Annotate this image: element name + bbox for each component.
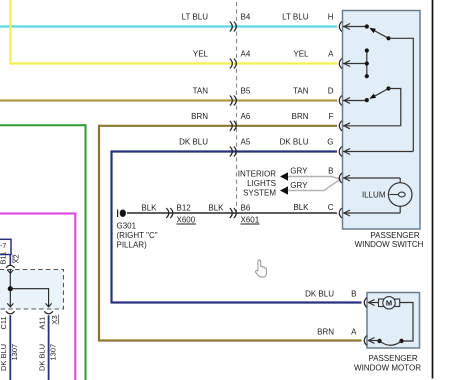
connector arc motor B — [364, 298, 367, 308]
svg-text:B4: B4 — [241, 13, 251, 22]
connector arc bottom 2 (X3) — [44, 311, 53, 314]
svg-text:A4: A4 — [241, 50, 251, 59]
splice node — [8, 286, 13, 291]
svg-text:B11: B11 — [0, 252, 8, 265]
svg-text:A11: A11 — [37, 317, 46, 330]
svg-text:LT BLU: LT BLU — [182, 13, 209, 22]
connector arc bottom 1 (X3) — [6, 311, 15, 314]
svg-text:TAN: TAN — [293, 87, 309, 96]
svg-text:1307: 1307 — [10, 344, 19, 361]
pin F arrow and internal wire — [343, 123, 401, 129]
svg-text:BLK: BLK — [208, 204, 224, 213]
wire BRN horizontal bottom (motor A) — [98, 339, 362, 341]
connector arc pin A — [339, 59, 342, 69]
svg-text:BLK: BLK — [293, 203, 309, 212]
wire MAGENTA horizontal (left) — [0, 213, 76, 215]
splice branch wire — [10, 289, 48, 307]
label INTERIOR LIGHTS SYSTEM — [238, 170, 277, 198]
pin A arrow and internal wire — [343, 61, 367, 67]
svg-text:BRN: BRN — [317, 328, 334, 337]
wire GRY upper (to interior lights) — [287, 177, 341, 180]
wire DK BLU bottom 2 — [48, 315, 50, 380]
pin G arrow and internal wire — [343, 149, 413, 155]
svg-text:WINDOW MOTOR: WINDOW MOTOR — [354, 364, 421, 373]
wire DK BLU horizontal (row G/A5) — [111, 150, 338, 152]
wire YEL vertical (top left) — [9, 0, 11, 65]
svg-text:D: D — [328, 87, 334, 96]
svg-text:TAN: TAN — [193, 87, 209, 96]
splice dashed box — [0, 270, 64, 310]
svg-text:X601: X601 — [241, 216, 260, 225]
wire GRN vertical (left) — [85, 124, 87, 380]
motor A arrow and wire — [368, 338, 380, 344]
wire GRY lower (to interior lights) — [287, 179, 341, 191]
svg-text:BRN: BRN — [191, 112, 208, 121]
wire TAN horizontal (row D/B5) — [0, 99, 337, 101]
connector arc motor A — [364, 336, 367, 346]
svg-text:DK BLU: DK BLU — [37, 344, 46, 371]
svg-text:A: A — [351, 328, 357, 337]
label X601 — [241, 216, 260, 225]
wire BLK horizontal (row C/B6) — [127, 212, 337, 214]
wire GRN horizontal (left) — [0, 124, 87, 126]
inline connector A4 — [230, 59, 237, 69]
svg-text:DK BLU: DK BLU — [305, 290, 334, 299]
switch A common bar — [365, 48, 369, 78]
svg-text:B: B — [351, 290, 356, 299]
lamp ILLUM — [388, 183, 412, 207]
pin D arrow and internal wire — [343, 98, 367, 104]
pin H arrow and internal wire — [343, 24, 367, 30]
svg-text:DK BLU: DK BLU — [179, 138, 208, 147]
label G301 (RIGHT "C" PILLAR) — [117, 222, 158, 250]
svg-text:LIGHTS: LIGHTS — [247, 179, 276, 188]
svg-text:B12: B12 — [177, 204, 192, 213]
connector arc pin D — [339, 96, 342, 106]
switch D movable contact — [386, 86, 390, 90]
svg-text:G: G — [327, 138, 333, 147]
connector arc top (X2) — [6, 265, 15, 268]
svg-text:B5: B5 — [241, 87, 251, 96]
svg-text:ILLUM: ILLUM — [362, 191, 386, 200]
ground G301 — [118, 210, 126, 218]
inline connector B6/X601 — [230, 208, 237, 218]
inline connector A6 — [230, 121, 237, 131]
wire DK BLU vertical — [110, 151, 112, 304]
svg-text:BLK: BLK — [141, 204, 157, 213]
wire from box to splice — [9, 255, 11, 267]
svg-text:GRY: GRY — [290, 167, 308, 176]
switch D blade — [369, 89, 388, 99]
svg-text:(RIGHT "C": (RIGHT "C" — [117, 231, 158, 240]
label PASSENGER WINDOW MOTOR — [354, 354, 421, 373]
switch H blade — [369, 28, 388, 39]
connector arc pin G — [339, 147, 342, 157]
wire MAGENTA vertical (left) — [74, 213, 76, 380]
mouse cursor — [256, 260, 267, 277]
passenger window motor block — [367, 293, 420, 349]
svg-text:DK BLU: DK BLU — [0, 344, 8, 371]
wire DK BLU bottom 1 — [9, 315, 11, 380]
connector arc pin H — [339, 22, 342, 32]
svg-text:M: M — [386, 299, 392, 308]
inline connector B4 — [230, 22, 237, 32]
svg-text:G301: G301 — [117, 222, 137, 231]
svg-text:B: B — [328, 167, 333, 176]
svg-text:A: A — [328, 50, 334, 59]
switch D fixed contact — [365, 98, 369, 102]
svg-text:F: F — [329, 112, 334, 121]
svg-text:SYSTEM: SYSTEM — [243, 189, 276, 198]
dashed boundary interior lights system — [236, 2, 238, 215]
pin C arrow and internal wire — [343, 206, 400, 216]
wire LT BLU horizontal (row H/B4) — [0, 25, 337, 27]
black border line right — [432, 0, 434, 379]
svg-text:C11: C11 — [0, 316, 8, 329]
wire from D switch to F — [389, 89, 401, 126]
svg-text:WINDOW SWITCH: WINDOW SWITCH — [355, 240, 424, 249]
inline connector B5 — [230, 96, 237, 106]
splice entry arrow — [7, 270, 13, 274]
left sub-circuit: component box (partial) — [0, 239, 11, 254]
svg-text:PASSENGER: PASSENGER — [368, 354, 417, 363]
splice exit arrow 2 — [46, 303, 52, 307]
svg-text:A6: A6 — [241, 112, 251, 121]
svg-text:1307: 1307 — [48, 344, 57, 361]
svg-text:INTERIOR: INTERIOR — [238, 170, 276, 179]
svg-text:C: C — [328, 203, 334, 212]
svg-text:X3: X3 — [50, 315, 59, 324]
switch H fixed contact — [365, 24, 369, 28]
pin B arrow and internal wire — [343, 175, 400, 183]
svg-text:DK BLU: DK BLU — [280, 138, 309, 147]
connector arc pin C — [339, 208, 342, 218]
splice exit arrow 1 — [7, 303, 13, 307]
svg-text:PILLAR): PILLAR) — [117, 241, 148, 250]
svg-text:GRY: GRY — [290, 181, 308, 190]
svg-text:BRN: BRN — [292, 112, 309, 121]
switch H movable contact — [386, 36, 390, 40]
svg-text:YEL: YEL — [193, 50, 209, 59]
connector arc pin B — [339, 173, 342, 183]
svg-text:H: H — [328, 13, 334, 22]
connector arc pin F — [339, 121, 342, 131]
motor reversing contacts — [377, 339, 403, 345]
wire DK BLU horizontal bottom (motor B) — [111, 301, 362, 303]
svg-text:X600: X600 — [177, 216, 196, 225]
wire BRN horizontal (row F/A6) — [98, 125, 337, 127]
splice wire vertical 1 — [9, 269, 11, 307]
motor internal wire right — [400, 303, 413, 342]
label PASSENGER WINDOW SWITCH — [355, 231, 424, 249]
passenger window switch block — [343, 11, 421, 230]
arrow GRY lower — [280, 186, 288, 194]
inline connector X600 — [166, 208, 173, 218]
svg-text:PASSENGER: PASSENGER — [370, 231, 419, 240]
svg-text:A5: A5 — [241, 138, 251, 147]
motor B arrow and wire — [368, 300, 379, 306]
svg-text:LT BLU: LT BLU — [282, 13, 309, 22]
wire YEL horizontal (row A/A4) — [10, 62, 338, 64]
arrow GRY upper — [280, 172, 288, 180]
motor M symbol — [379, 297, 400, 309]
wire from H switch to G — [389, 38, 414, 151]
svg-text:YEL: YEL — [293, 50, 309, 59]
svg-text:B6: B6 — [241, 204, 251, 213]
wire BRN vertical — [98, 125, 100, 342]
inline connector A5 — [230, 147, 237, 157]
label X600 — [177, 216, 197, 225]
svg-text:-7: -7 — [0, 243, 6, 250]
